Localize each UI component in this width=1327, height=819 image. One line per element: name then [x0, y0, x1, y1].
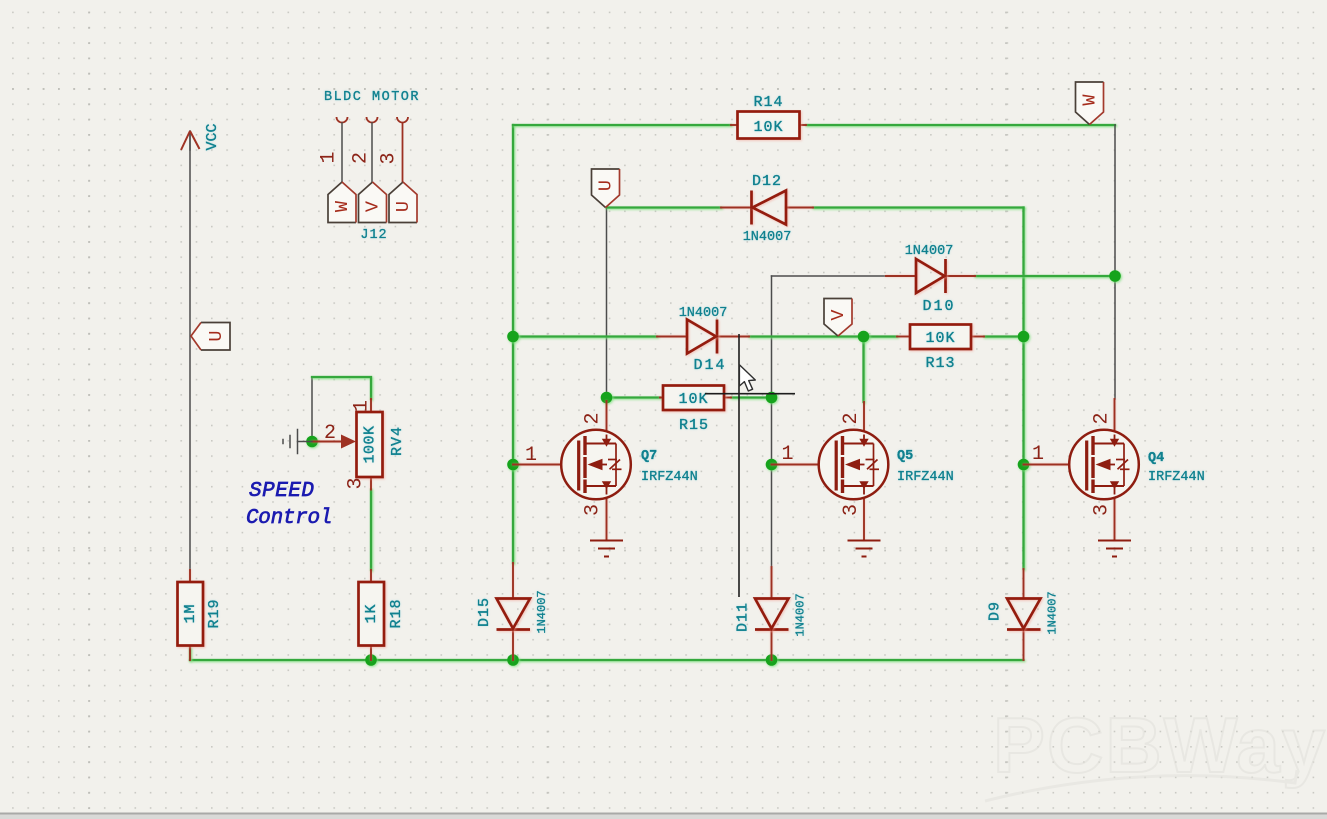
wire left vertical green (net U) [512, 125, 514, 563]
svg-text:1N4007: 1N4007 [535, 590, 549, 633]
svg-text:1: 1 [317, 151, 340, 163]
svg-text:R18: R18 [388, 598, 405, 628]
svg-text:RV4: RV4 [389, 426, 406, 456]
wire top horizontal right of R14 to W flag corner [806, 124, 1115, 126]
svg-text:U: U [393, 201, 414, 212]
RV4 wiper arrow pin 2 [312, 441, 342, 443]
wire U flag row left of D12 [607, 206, 722, 208]
svg-text:D15: D15 [476, 597, 493, 627]
svg-text:SPEED: SPEED [249, 480, 315, 503]
svg-text:1: 1 [781, 443, 793, 466]
J12 pin 1 line [341, 123, 343, 182]
wire W vertical down to Q4 drain [1114, 125, 1116, 399]
wire R15 right to x=771.5 line [731, 396, 767, 398]
wire RV4 wiper loop vertical dark [311, 377, 313, 442]
svg-text:3: 3 [840, 504, 863, 516]
junction at Q5 gate [766, 459, 778, 471]
svg-text:10K: 10K [678, 391, 708, 408]
svg-text:1M: 1M [182, 603, 199, 623]
svg-text:3: 3 [377, 152, 400, 164]
J12 pin number 2 [349, 152, 372, 164]
axis dots column [88, 0, 90, 813]
svg-text:1K: 1K [363, 603, 380, 623]
svg-text:3: 3 [344, 477, 367, 489]
resistor R13 10K [897, 325, 984, 373]
svg-text:D11: D11 [734, 602, 751, 632]
resistor R19 1M (bottom left) [178, 570, 223, 660]
svg-text:Q5: Q5 [897, 449, 913, 464]
wire R15 left to Q7 drain junction [607, 396, 661, 398]
label BLDC MOTOR [324, 90, 420, 105]
diode D12 1N4007 (points left) [721, 173, 813, 245]
svg-text:VCC: VCC [204, 123, 221, 150]
ground at RV4 wiper [283, 430, 312, 454]
svg-text:U: U [206, 330, 227, 341]
diode D11 1N4007 (points down) [734, 567, 807, 660]
sheet flag V at J12 pin2 [359, 182, 387, 223]
power symbol VCC [181, 123, 221, 150]
svg-text:V: V [362, 201, 383, 212]
junction bottom wire at D11 [766, 654, 778, 666]
svg-text:R14: R14 [753, 94, 783, 111]
connector J12 pin hooks (unconnected ends) [337, 117, 409, 123]
wire dark vertical x=771.5 down to D11 [771, 276, 773, 568]
svg-text:10K: 10K [925, 330, 955, 347]
svg-text:3: 3 [581, 504, 604, 516]
wire V row left of D14 [513, 335, 657, 337]
cursor crosshair horizontal line [705, 393, 795, 395]
svg-text:R13: R13 [925, 355, 955, 372]
global label W (top right) [1076, 82, 1104, 125]
transistor Q5 IRFZ44N [772, 402, 954, 540]
mouse pointer [739, 365, 755, 391]
svg-text:J12: J12 [360, 228, 387, 243]
diode D9 1N4007 (points down) [986, 569, 1059, 660]
global label U (top, above Q7) [592, 169, 620, 208]
svg-text:3: 3 [1090, 504, 1113, 516]
wire Q5 drain from V row [862, 337, 864, 403]
resistor R14 10K (top) [731, 94, 806, 139]
bottom window edge [0, 813, 1327, 819]
ground under Q4 [1098, 541, 1131, 557]
ground under Q5 [848, 541, 881, 557]
diode D15 1N4007 (points down) [476, 563, 549, 660]
cursor crosshair vertical line [738, 334, 740, 597]
wire RV4 pin3 to R18 green [370, 490, 372, 571]
svg-text:IRFZ44N: IRFZ44N [897, 470, 954, 485]
resistor R18 1K [359, 570, 405, 660]
svg-text:100K: 100K [361, 425, 378, 463]
junction at RV4 wiper [306, 436, 318, 448]
axis dots row [0, 88, 1327, 90]
junction at R15 right on x=771.5 [766, 392, 778, 404]
svg-text:V: V [828, 309, 849, 320]
transistor Q7 IRFZ44N [513, 401, 698, 540]
junction at left line / V row [507, 331, 519, 343]
svg-text:Q7: Q7 [641, 449, 657, 464]
J12 pin 3 line [402, 123, 404, 182]
resistor R15 10K [660, 386, 731, 435]
svg-text:2: 2 [349, 152, 372, 164]
wire V row D14 to R13 [749, 335, 897, 337]
svg-text:1: 1 [525, 444, 537, 467]
svg-text:1N4007: 1N4007 [905, 244, 954, 259]
junction at Q7 gate [507, 459, 519, 471]
svg-text:D9: D9 [986, 601, 1003, 621]
junction at Q4 gate [1018, 459, 1030, 471]
junction at D10 row / W vertical [1109, 270, 1121, 282]
junction bottom wire at D15 [507, 654, 519, 666]
svg-text:U: U [595, 180, 616, 191]
svg-text:Control: Control [246, 507, 332, 530]
emphasized grid row [0, 550, 1327, 552]
junction at R13 right [1018, 331, 1030, 343]
J12 pin number 3 [377, 152, 400, 164]
svg-text:D12: D12 [752, 173, 782, 190]
wire R19 bottom corner [189, 648, 191, 660]
wire U flag row right of D12 [813, 206, 1024, 208]
svg-text:1N4007: 1N4007 [743, 230, 792, 245]
wire VCC vertical (net VCC) [189, 133, 191, 570]
svg-text:2: 2 [324, 422, 336, 445]
wire top horizontal left of R14 [513, 124, 731, 126]
wire V row right of R13 [984, 335, 1024, 337]
global label V (above wire, left of R13) [824, 299, 852, 337]
svg-text:1N4007: 1N4007 [794, 593, 808, 636]
svg-text:IRFZ44N: IRFZ44N [641, 470, 698, 485]
diode D10 1N4007 (points right) [886, 244, 975, 315]
svg-text:1N4007: 1N4007 [679, 306, 728, 321]
svg-text:Q4: Q4 [1148, 451, 1164, 466]
svg-text:BLDC MOTOR: BLDC MOTOR [324, 90, 420, 105]
svg-text:R19: R19 [206, 598, 223, 628]
J12 pin number 1 [317, 151, 340, 163]
svg-text:10K: 10K [753, 119, 783, 136]
svg-text:D10: D10 [922, 298, 955, 315]
diode D14 1N4007 (points right) [657, 306, 749, 374]
wire D10 row corner from x=771.5 line [772, 275, 887, 277]
wire bottom horizontal green [190, 659, 1024, 661]
junction at V flag / Q5 drain [858, 331, 870, 343]
sheet flag W at J12 pin1 [328, 182, 356, 223]
svg-text:IRFZ44N: IRFZ44N [1148, 470, 1205, 485]
svg-text:2: 2 [1090, 412, 1113, 424]
J12 pin 2 line [371, 123, 373, 182]
wire U flag down to Q7 drain [606, 208, 608, 398]
sheet flag U at J12 pin3 [389, 182, 417, 223]
svg-text:2: 2 [581, 412, 604, 424]
label J12 [360, 228, 387, 243]
transistor Q4 IRFZ44N [1024, 399, 1205, 540]
svg-text:D14: D14 [693, 357, 726, 374]
emphasized grid column [547, 0, 549, 813]
svg-text:1: 1 [350, 400, 373, 412]
svg-text:1: 1 [1032, 443, 1044, 466]
PCBWay watermark [985, 701, 1327, 801]
wire D10 row green to W vertical [975, 275, 1115, 277]
text SPEED Control [246, 480, 332, 530]
wire green vertical x=1023.5 from D12 row to D9 [1022, 208, 1024, 570]
emphasized grid column [1005, 0, 1007, 813]
svg-text:2: 2 [840, 412, 863, 424]
svg-text:R15: R15 [679, 417, 709, 434]
potentiometer RV4 100K [312, 399, 406, 490]
global label U (left, on VCC line) [191, 323, 230, 351]
svg-text:W: W [1079, 94, 1100, 106]
svg-text:W: W [332, 200, 353, 212]
ground under Q7 [590, 541, 623, 557]
junction bottom wire at R18 [365, 654, 377, 666]
junction at Q7 drain / R15 [601, 392, 613, 404]
wire RV4 loop top green [312, 377, 371, 399]
svg-text:1N4007: 1N4007 [1046, 591, 1060, 634]
